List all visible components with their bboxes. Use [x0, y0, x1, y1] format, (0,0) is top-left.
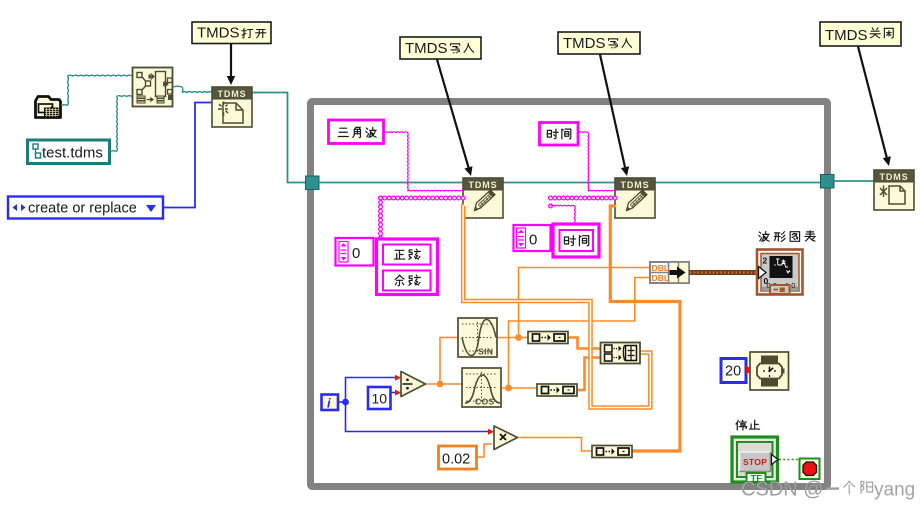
svg-text:test.tdms: test.tdms [42, 145, 103, 162]
wire: build array1 to build array (2in) top [568, 338, 600, 349]
svg-text:DBL: DBL [652, 273, 670, 283]
wire: 2D array from build array to TDMS write1 data (double line) [463, 206, 650, 408]
wire: main TDMS refnum through loop [319, 182, 820, 184]
label TMDS打开 with arrow [192, 22, 271, 85]
svg-text:0: 0 [529, 232, 537, 249]
svg-text:TMDS: TMDS [405, 40, 448, 57]
wire: folder to build path [61, 75, 132, 105]
build array node 2 (cosine) [537, 384, 577, 396]
build array node 1 (sine) [528, 332, 568, 344]
wire: 三角波 to TDMS write1 group [384, 132, 463, 191]
wire: string array to TDMS write1 channels [379, 196, 465, 240]
wire: string array to TDMS write2 channels [549, 196, 617, 222]
svg-text:2: 2 [763, 256, 768, 266]
junction dot divide out [437, 381, 444, 388]
svg-text:20: 20 [725, 364, 741, 380]
svg-text:SIN: SIN [478, 347, 493, 357]
svg-text:TDMS: TDMS [620, 180, 649, 190]
numeric constant 0.02 [439, 446, 477, 469]
divide function node [395, 372, 426, 397]
build array node 3 (time) [592, 446, 632, 458]
wire: 1D array build3 to TDMS write2 data (thick) [610, 206, 680, 451]
svg-text:COS: COS [475, 397, 495, 407]
svg-text:TDMS: TDMS [217, 89, 246, 99]
TDMS Write node 1 [463, 178, 503, 218]
build path (open/create file helper) node [133, 68, 174, 107]
wire: TDMS open out, down to loop tunnel [252, 93, 305, 183]
wire: 0.02 to multiply [477, 444, 492, 457]
build array node (2 inputs, 2D out) [601, 343, 641, 364]
path constant test.tdms [28, 140, 110, 164]
junction dot SIN out [515, 334, 522, 341]
wire: stop to loop condition (green dotted) [779, 459, 799, 461]
wire: SIN out to build array1 and merge top [497, 268, 650, 338]
wire: divide out to SIN and COS [425, 338, 462, 385]
enum constant create or replace [8, 197, 163, 219]
tunnel (loop right, TDMS refnum out) [821, 175, 835, 189]
junction dot i out [342, 399, 349, 406]
multiply function node [488, 426, 518, 450]
stop button terminal [732, 437, 778, 485]
wire: multiply out to build array3 [517, 438, 592, 452]
wire: test.tdms to build path [110, 96, 132, 152]
svg-text:STOP: STOP [743, 457, 767, 467]
svg-text:create or replace: create or replace [28, 201, 137, 217]
wire: COS out to build array2 and merge bottom [502, 278, 650, 389]
svg-text:CSDN @: CSDN @ [741, 479, 824, 501]
svg-text:10: 10 [372, 391, 388, 407]
TDMS Close node [874, 170, 914, 210]
wire: build array2 to build array (2in) bottom [578, 358, 600, 391]
wire: 10 to divide [391, 392, 398, 394]
wire: dynamic data to waveform chart [689, 270, 757, 275]
COS function node [462, 368, 501, 407]
wire: blue enum to TDMS open [163, 103, 213, 208]
label 停止 [736, 420, 760, 430]
wire: build path to TDMS open [173, 86, 212, 92]
svg-text:0.02: 0.02 [442, 452, 470, 468]
label TMDS关闭 with arrow [820, 22, 901, 166]
svg-text:TDMS: TDMS [468, 180, 497, 190]
svg-text:TDMS: TDMS [879, 172, 908, 182]
folder path constant icon [36, 97, 61, 118]
svg-text:TMDS: TMDS [825, 27, 868, 44]
svg-text:DBL: DBL [652, 263, 670, 273]
wait (ms) timer node [750, 352, 789, 390]
numeric constant 20 [721, 359, 746, 383]
SIN function node [458, 318, 497, 357]
numeric constant 10 [368, 387, 391, 409]
TDMS Open node [212, 87, 252, 127]
string constant 时间 (label) [540, 123, 579, 146]
tunnel (loop left, TDMS refnum in) [306, 176, 320, 190]
while loop frame [311, 102, 828, 487]
wire: i to divide and multiply [338, 378, 491, 432]
wire: right tunnel to TDMS close [834, 180, 875, 182]
CSDN watermark [741, 479, 915, 501]
svg-text:yang: yang [874, 480, 915, 501]
loop iteration terminal i [322, 395, 339, 411]
loop condition terminal (stop sign) [800, 459, 820, 480]
label TMDS写入 #2 with arrow [558, 32, 640, 176]
junction dot COS out [505, 385, 512, 392]
waveform chart terminal [757, 250, 803, 295]
label TMDS写入 #1 with arrow [400, 37, 481, 176]
merge signals node (DBL,DBL to dynamic) [650, 262, 689, 283]
red coercion arrow 20 to wait [746, 366, 754, 374]
wire: 时间 to TDMS write2 group [578, 132, 615, 191]
svg-text:TMDS: TMDS [197, 25, 240, 42]
label 波形图表 [759, 231, 816, 242]
svg-text:0: 0 [352, 245, 360, 262]
TDMS Write node 2 [615, 178, 655, 218]
svg-text:TMDS: TMDS [563, 35, 606, 52]
svg-text:i: i [327, 396, 331, 411]
string constant 三角波 [329, 120, 384, 144]
array constant 正弦/余弦 [336, 238, 438, 295]
array constant 时间 [514, 224, 600, 257]
